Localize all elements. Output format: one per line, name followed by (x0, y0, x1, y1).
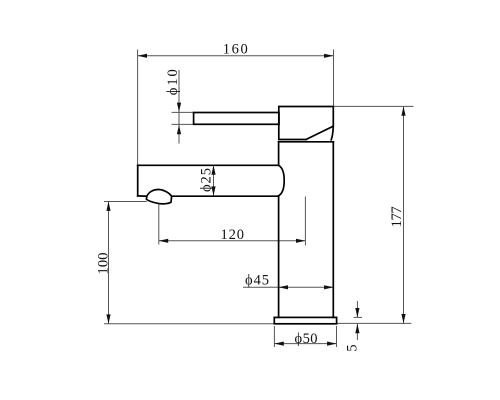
svg-text:5: 5 (344, 344, 360, 351)
svg-text:ϕ45: ϕ45 (245, 273, 269, 289)
svg-text:100: 100 (96, 253, 112, 275)
svg-text:ϕ25: ϕ25 (199, 168, 215, 192)
svg-text:120: 120 (221, 227, 245, 243)
svg-text:177: 177 (389, 206, 405, 227)
svg-text:ϕ50: ϕ50 (295, 331, 318, 347)
svg-text:160: 160 (223, 42, 248, 58)
svg-text:ϕ10: ϕ10 (165, 69, 181, 95)
